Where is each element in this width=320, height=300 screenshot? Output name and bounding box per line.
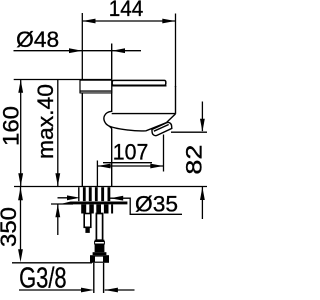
body left edge [81,92,83,187]
dimension Ø35 left segment [58,197,75,199]
svg-text:107: 107 [113,140,149,165]
left stud tube [84,214,91,233]
lever handle bar [112,80,166,85]
extension line spout outlet y132 [171,131,207,133]
counter mounting surface line [14,186,207,188]
arrowhead max40 down [55,173,60,186]
arrowhead 350 down [18,249,23,262]
dimension Ø35 right segment with elbow [110,198,182,214]
dimension 144 line [82,20,175,22]
right supply tube [96,214,102,241]
arrowhead 107 right [150,164,163,169]
aerator inner line [154,125,169,132]
extension line left x82 [81,13,83,80]
arrowhead 144 right [162,19,175,24]
spout lower inner line [112,113,176,115]
dimension max40 leader upper [57,80,59,187]
svg-text:82: 82 [182,145,207,175]
svg-text:G3/8: G3/8 [19,263,67,295]
arrowhead 107 left [98,164,111,169]
mounting flange plate [63,202,128,205]
connector white window [95,257,103,262]
svg-text:350: 350 [0,207,21,247]
spout block face [112,86,176,114]
hose connector stack [90,240,109,263]
stud tip [85,227,89,233]
dimension Ø48 line [14,50,142,52]
extension tick flange bottom y204 [51,203,73,205]
dimension 82 lower segment [201,187,203,219]
arrowhead hose (pointing left) [105,288,118,293]
arrowhead Ø35 right(pointing left) [110,196,123,201]
svg-text:Ø35: Ø35 [135,192,178,217]
faucet body outline group [82,44,175,187]
body right edge upper [111,44,113,113]
svg-text:Ø48: Ø48 [16,27,59,52]
extension line aerator center x163 [163,135,165,172]
spout front bevel [167,114,176,123]
extension line hose end y262.5 [12,262,92,264]
dimension max40 leader lower [57,204,59,235]
extension line y79.5 to lever top [14,79,112,81]
connector collar outline [95,242,105,245]
mounting nut band [81,204,113,213]
aerator [152,122,172,135]
extension line right x175 [175,14,177,88]
arrowhead 144 left [83,19,96,24]
arrowhead 82 down [200,119,205,132]
body top cap [80,80,113,94]
arrowhead 82 up [200,187,205,200]
dimension hose right segment [105,289,135,291]
dimension 107 line [97,165,163,167]
extension line body center x97 [96,161,98,187]
arrowhead max40 up [55,204,60,217]
dimension 350 line upper [20,187,22,250]
dimension 82 upper segment [201,102,203,132]
arrowhead 160 down [18,173,23,186]
spout underside curve [104,111,166,131]
arrowhead Ø48 left [69,48,82,53]
arrowhead G3/8 (pointing right) [81,288,94,293]
arrowhead Ø48 right [112,48,125,53]
leader G3/8 underline [19,289,83,291]
svg-text:144: 144 [109,0,144,21]
arrowhead Ø35 left(pointing right) [67,195,80,200]
arrowhead 350 up [18,187,23,200]
arrowhead 160 up [18,80,23,93]
cap bottom thick band [80,90,113,91]
body right edge lower [111,129,113,187]
dimension 160 line [20,80,22,187]
hose thread lines G3/8 [94,263,104,293]
svg-text:max.40: max.40 [33,84,58,159]
threaded shank tubes below counter [78,187,110,201]
underline 107 [103,162,152,164]
svg-text:160: 160 [0,106,24,146]
